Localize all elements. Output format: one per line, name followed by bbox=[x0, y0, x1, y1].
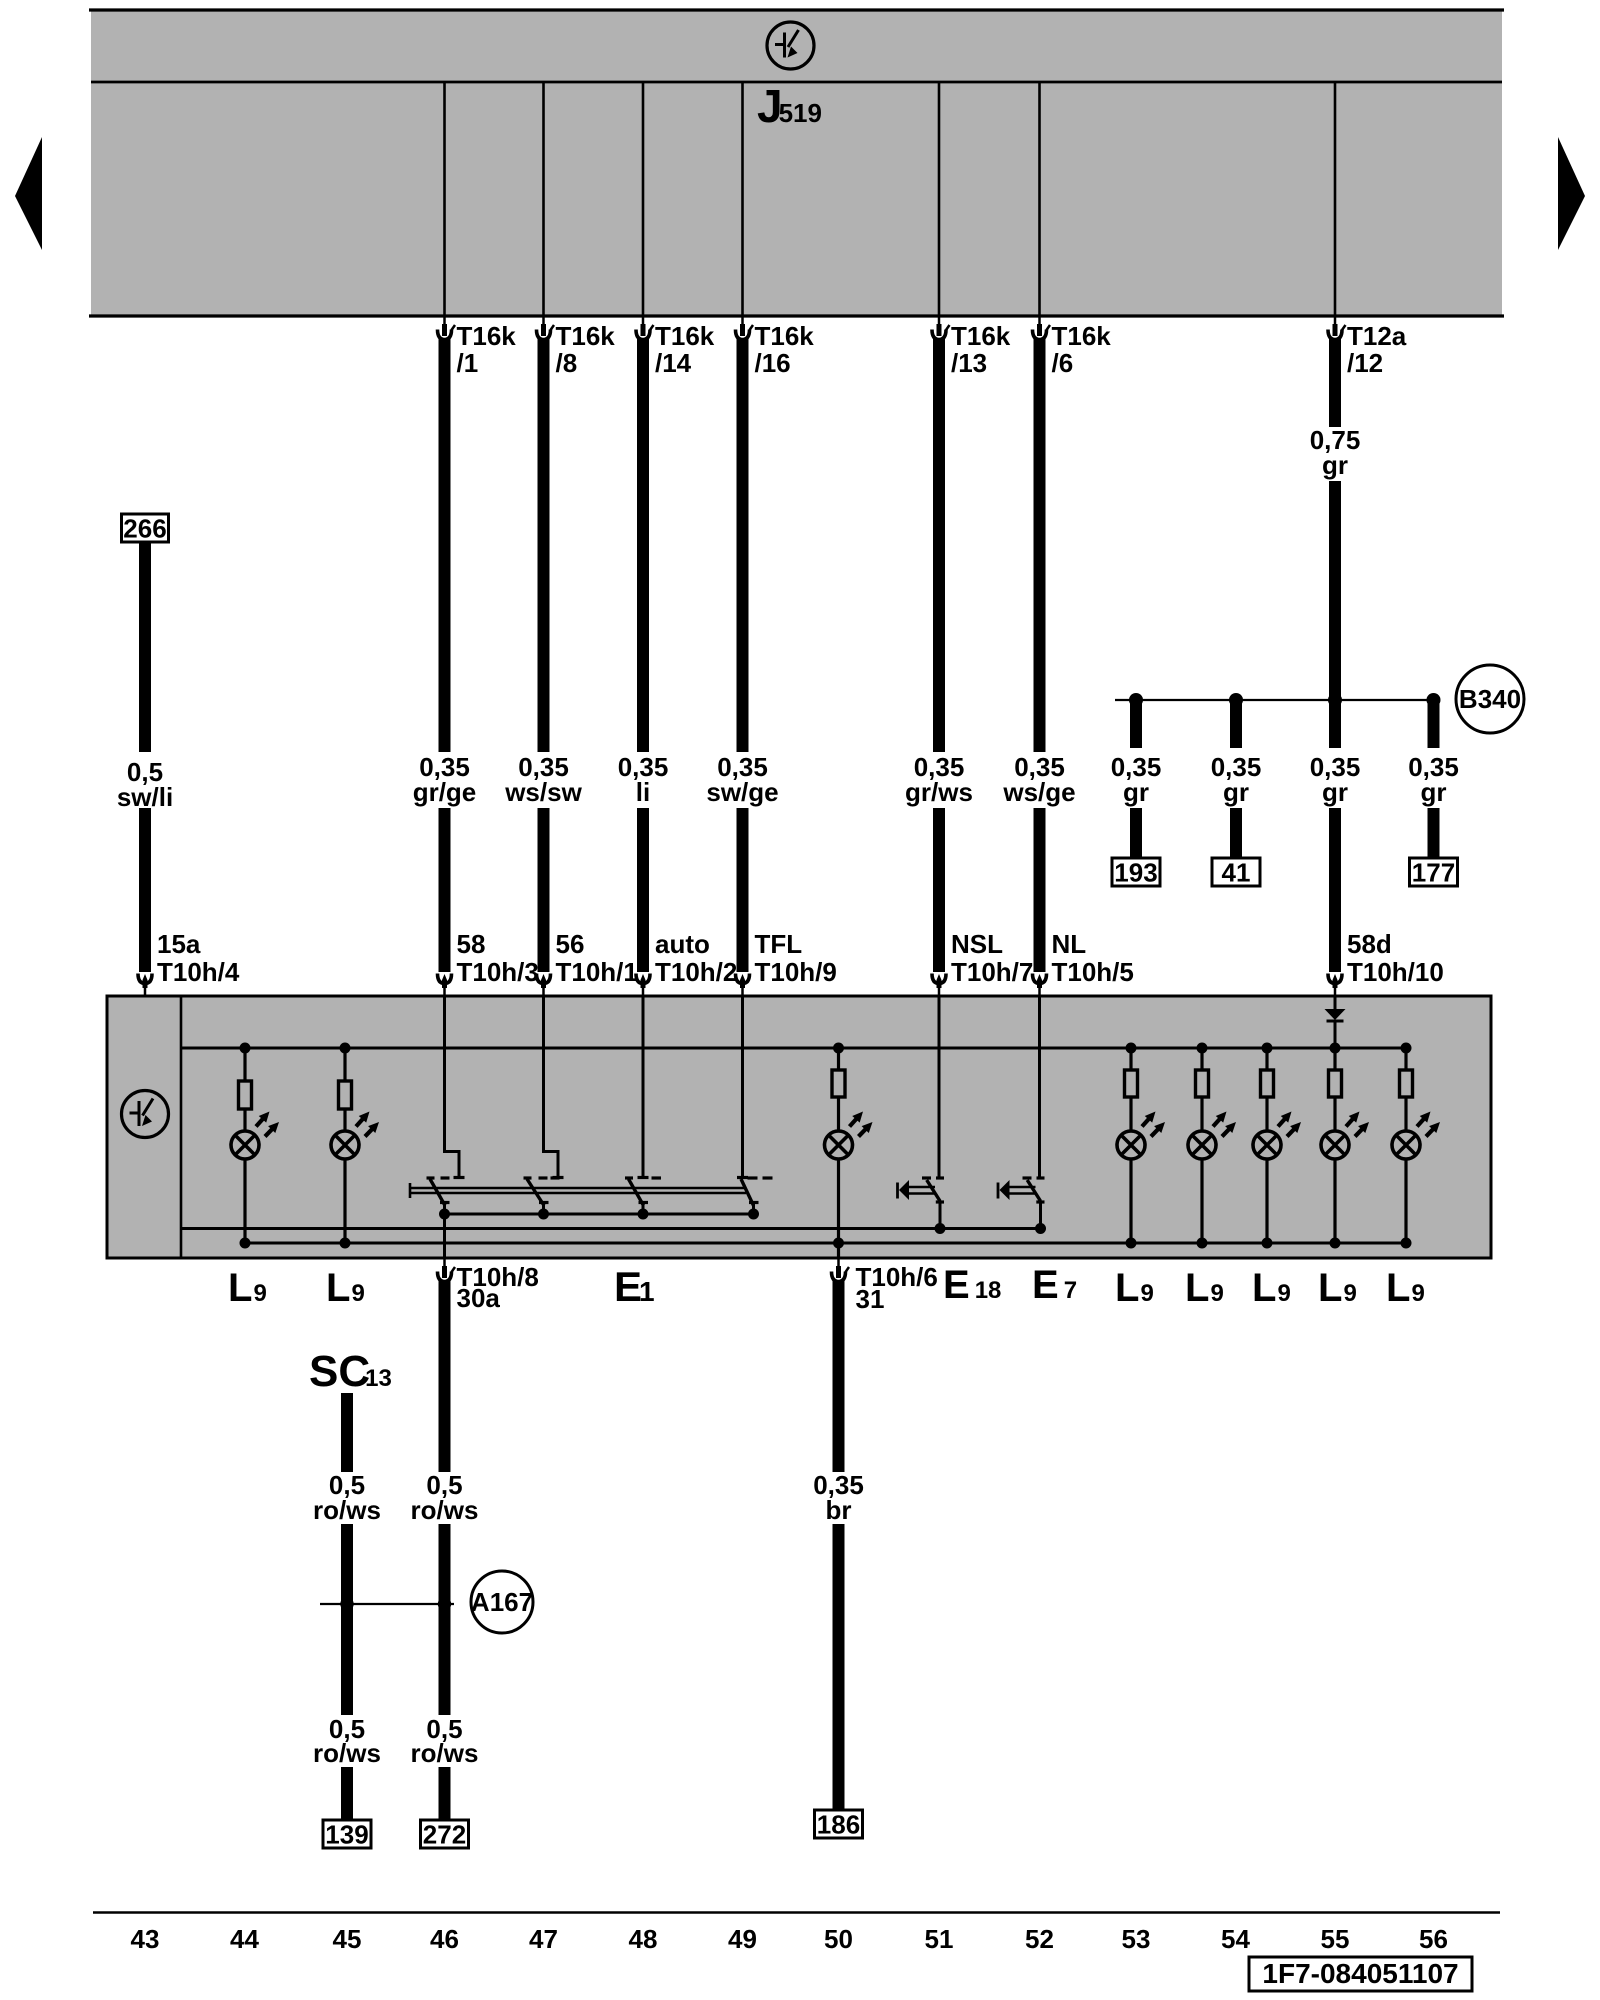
svg-text:gr: gr bbox=[1421, 777, 1447, 807]
pin label T16k/1 bbox=[457, 321, 517, 378]
svg-text:T16k: T16k bbox=[655, 321, 715, 351]
E1 feed wire col 48 bbox=[638, 996, 649, 1178]
svg-text:L9: L9 bbox=[1252, 1266, 1291, 1310]
connector T10h/6 below box bbox=[832, 1258, 850, 1282]
wire segment column 49 lower bbox=[737, 808, 749, 972]
svg-text:TFL: TFL bbox=[755, 929, 803, 959]
wire T12a/12 segment 3 bbox=[1329, 808, 1341, 972]
svg-text:T16k: T16k bbox=[755, 321, 815, 351]
label L9 fourth bbox=[1185, 1266, 1224, 1310]
wire T12a/12 segment 2 bbox=[1329, 481, 1341, 748]
terminal label NL T10h/5 bbox=[1052, 929, 1134, 987]
reference box 266 bbox=[122, 513, 169, 543]
reference box 139 bbox=[323, 1819, 371, 1849]
svg-text:T10h/3: T10h/3 bbox=[457, 957, 539, 987]
svg-text:54: 54 bbox=[1221, 1924, 1250, 1954]
wire resistor to lamp L9#6 bbox=[1333, 1097, 1336, 1131]
svg-text:43: 43 bbox=[131, 1924, 160, 1954]
current track number 48 bbox=[629, 1924, 658, 1954]
resistor lamp L9#7 bbox=[1400, 1070, 1413, 1097]
svg-text:sw/li: sw/li bbox=[117, 782, 173, 812]
connector into light switch column 47 bbox=[537, 974, 551, 997]
terminal label NSL T10h/7 bbox=[951, 929, 1033, 987]
svg-text:48: 48 bbox=[629, 1924, 658, 1954]
wire from B340 to 177 lower bbox=[1428, 808, 1440, 858]
junction on B340 at col 56 bbox=[1427, 693, 1441, 707]
junction lamp L9#7 bottom bbox=[1401, 1238, 1412, 1249]
wire lamp L9#1 to return bus bbox=[243, 1159, 246, 1243]
diagram number box bbox=[1249, 1957, 1472, 1991]
svg-text:44: 44 bbox=[230, 1924, 259, 1954]
svg-text:193: 193 bbox=[1114, 857, 1157, 887]
label SC13 bbox=[309, 1347, 392, 1396]
svg-text:T10h/2: T10h/2 bbox=[655, 957, 737, 987]
resistor lamp L9#5 bbox=[1261, 1070, 1274, 1097]
wire resistor to lamp L9#5 bbox=[1265, 1097, 1268, 1131]
wire size/colour label 0,35 gr/ws bbox=[905, 752, 973, 807]
junction A167 on SC13 wire bbox=[340, 1597, 353, 1610]
svg-text:272: 272 bbox=[423, 1819, 466, 1849]
label E1 bbox=[614, 1263, 655, 1310]
svg-text:55: 55 bbox=[1321, 1924, 1350, 1954]
junction lamp L9#4 bottom bbox=[1197, 1238, 1208, 1249]
svg-text:NL: NL bbox=[1052, 929, 1087, 959]
middle lamp feed wire bbox=[837, 1048, 840, 1070]
label J519 bbox=[757, 80, 822, 132]
wire size/colour label 0,5 ro/ws (SC13 lower) bbox=[313, 1714, 381, 1768]
svg-text:58: 58 bbox=[457, 929, 486, 959]
lamp L9#2 bbox=[331, 1112, 379, 1160]
svg-text:NSL: NSL bbox=[951, 929, 1003, 959]
junction middle lamp top bbox=[833, 1043, 844, 1054]
reference box 41 bbox=[1212, 857, 1260, 887]
wire segment column 48 lower bbox=[637, 808, 649, 972]
svg-text:139: 139 bbox=[325, 1819, 368, 1849]
svg-text:E18: E18 bbox=[943, 1263, 1001, 1307]
svg-text:A167: A167 bbox=[471, 1587, 533, 1617]
svg-text:B340: B340 bbox=[1459, 684, 1521, 714]
label L9 first bbox=[228, 1266, 267, 1310]
svg-text:49: 49 bbox=[728, 1924, 757, 1954]
wire size/colour label 0,35 li bbox=[618, 752, 669, 807]
junction lamp L9#6 top bbox=[1330, 1043, 1341, 1054]
resistor lamp L9#3 bbox=[1125, 1070, 1138, 1097]
junction middle lamp bottom bbox=[833, 1238, 844, 1249]
reference box 193 bbox=[1112, 857, 1160, 887]
terminal label 56 T10h/1 bbox=[556, 929, 638, 987]
svg-text:br: br bbox=[826, 1495, 852, 1525]
current track number 46 bbox=[430, 1924, 459, 1954]
reference box 177 bbox=[1410, 857, 1458, 887]
svg-text:/8: /8 bbox=[556, 348, 578, 378]
reference box 272 bbox=[421, 1819, 469, 1849]
wire segment column 51 lower bbox=[933, 808, 945, 972]
svg-text:/12: /12 bbox=[1347, 348, 1383, 378]
svg-text:gr: gr bbox=[1322, 777, 1348, 807]
internal supply bus bbox=[181, 1047, 1406, 1050]
svg-text:gr: gr bbox=[1223, 777, 1249, 807]
connector into light switch column 52 bbox=[1033, 974, 1047, 997]
connector T16k/6 at J519 bbox=[1033, 316, 1051, 340]
lamp L9#7 feed wire bbox=[1404, 1048, 1407, 1070]
svg-text:L9: L9 bbox=[1185, 1266, 1224, 1310]
wire lamp L9#5 to return bus bbox=[1265, 1159, 1268, 1243]
svg-text:ro/ws: ro/ws bbox=[411, 1495, 479, 1525]
svg-text:56: 56 bbox=[1419, 1924, 1448, 1954]
internal lamp return bus bbox=[245, 1242, 1406, 1245]
connector T16k/16 at J519 bbox=[736, 316, 754, 340]
E1 switch contact position 2 bbox=[524, 1178, 560, 1220]
wire from B340 to 193 lower bbox=[1130, 808, 1142, 858]
junction lamp L9#1 top bbox=[240, 1043, 251, 1054]
svg-text:47: 47 bbox=[529, 1924, 558, 1954]
current track number 54 bbox=[1221, 1924, 1250, 1954]
label L9 third bbox=[1115, 1266, 1154, 1310]
label T10h/8 30a bbox=[457, 1262, 539, 1313]
svg-text:/6: /6 bbox=[1052, 348, 1074, 378]
svg-text:E7: E7 bbox=[1032, 1263, 1077, 1307]
label L9 fifth bbox=[1252, 1266, 1291, 1310]
internal switch return bus bbox=[181, 1227, 1041, 1230]
lamp L9#5 feed wire bbox=[1265, 1048, 1268, 1070]
label L9 second bbox=[326, 1266, 365, 1310]
svg-text:sw/ge: sw/ge bbox=[706, 777, 778, 807]
wire 266 upper segment bbox=[139, 542, 151, 752]
connection B340 bus wire bbox=[1115, 699, 1438, 701]
svg-text:L9: L9 bbox=[1318, 1266, 1357, 1310]
lamp L9#1 feed wire bbox=[243, 1048, 246, 1081]
control unit box J519 bbox=[89, 9, 1504, 316]
wire resistor to lamp L9#1 bbox=[243, 1109, 246, 1131]
direction arrow right bbox=[1558, 137, 1585, 250]
wire from B340 to 41 lower bbox=[1230, 808, 1242, 858]
svg-text:56: 56 bbox=[556, 929, 585, 959]
connector into light switch column 51 bbox=[932, 974, 946, 997]
E1 actuator bar bbox=[410, 1183, 746, 1198]
pin label T16k/6 bbox=[1052, 321, 1112, 378]
lamp L9#1 bbox=[231, 1112, 279, 1160]
svg-text:45: 45 bbox=[333, 1924, 362, 1954]
junction lamp L9#5 top bbox=[1262, 1043, 1273, 1054]
wire size/colour label 0,5 sw/li bbox=[117, 757, 173, 812]
svg-text:gr/ws: gr/ws bbox=[905, 777, 973, 807]
wire T12a/12 segment 1 bbox=[1329, 339, 1341, 427]
svg-text:ro/ws: ro/ws bbox=[411, 1738, 479, 1768]
svg-text:gr: gr bbox=[1123, 777, 1149, 807]
svg-text:31: 31 bbox=[856, 1284, 885, 1314]
pin label T16k/13 bbox=[951, 321, 1011, 378]
label T10h/6 31 bbox=[856, 1262, 938, 1314]
wire lamp L9#3 to return bus bbox=[1129, 1159, 1132, 1243]
wire resistor to lamp L9#2 bbox=[343, 1109, 346, 1131]
junction on B340 at col 55 bbox=[1328, 693, 1342, 707]
junction lamp L9#2 bottom bbox=[340, 1238, 351, 1249]
current track number 49 bbox=[728, 1924, 757, 1954]
svg-text:15a: 15a bbox=[157, 929, 201, 959]
wire 30a segment 3 bbox=[439, 1767, 451, 1820]
wire size/colour label 0,75 gr bbox=[1310, 425, 1361, 480]
svg-text:E1: E1 bbox=[614, 1263, 655, 1310]
terminal label 58d T10h/10 bbox=[1347, 929, 1444, 987]
wire size/colour label 0,35 ws/sw bbox=[504, 752, 582, 807]
wire 266 lower segment bbox=[139, 808, 151, 972]
svg-text:/14: /14 bbox=[655, 348, 692, 378]
label L9 sixth bbox=[1318, 1266, 1357, 1310]
connection A167 wire bbox=[320, 1603, 454, 1605]
wire stub in J519 column 49 bbox=[741, 82, 744, 316]
wire resistor to lamp L9#3 bbox=[1129, 1097, 1132, 1131]
resistor lamp L9#4 bbox=[1196, 1070, 1209, 1097]
lamp L9#3 feed wire bbox=[1129, 1048, 1132, 1070]
svg-text:L9: L9 bbox=[326, 1266, 365, 1310]
current track number 55 bbox=[1321, 1924, 1350, 1954]
E1 output wire 30a bbox=[443, 1214, 446, 1258]
E1 switch contact position 3 bbox=[625, 1178, 661, 1220]
middle lamp bbox=[825, 1112, 873, 1160]
svg-text:T10h/1: T10h/1 bbox=[556, 957, 638, 987]
wire stub in J519 column 47 bbox=[542, 82, 545, 316]
K symbol in light switch bbox=[122, 1091, 169, 1138]
svg-text:L9: L9 bbox=[1115, 1266, 1154, 1310]
wire resistor to middle lamp bbox=[837, 1097, 840, 1131]
reference box 186 bbox=[815, 1809, 863, 1839]
wire stub in J519 column 51 bbox=[938, 82, 941, 316]
lamp L9#5 bbox=[1253, 1112, 1301, 1160]
svg-text:46: 46 bbox=[430, 1924, 459, 1954]
wire size/colour label 0,5 ro/ws (30a lower) bbox=[411, 1714, 479, 1768]
wire segment column 48 upper bbox=[637, 339, 649, 752]
current track number 52 bbox=[1025, 1924, 1054, 1954]
fuse wire SC13 segment 2 bbox=[341, 1524, 353, 1715]
wire size/colour label 0,35 gr (col 53) bbox=[1111, 752, 1162, 807]
junction A167 on 30a wire bbox=[438, 1597, 451, 1610]
connector 15a into light switch bbox=[138, 974, 152, 997]
svg-text:30a: 30a bbox=[457, 1283, 501, 1313]
wire 31 segment 1 bbox=[833, 1281, 845, 1472]
terminal label 15a T10h/4 bbox=[157, 929, 240, 987]
connector into light switch column 49 bbox=[736, 974, 750, 997]
svg-text:T16k: T16k bbox=[1052, 321, 1112, 351]
wire stub in J519 column 46 bbox=[443, 82, 446, 316]
wire size/colour label 0,35 gr (col 56) bbox=[1408, 752, 1459, 807]
svg-text:50: 50 bbox=[824, 1924, 853, 1954]
svg-text:T16k: T16k bbox=[457, 321, 517, 351]
svg-text:SC13: SC13 bbox=[309, 1347, 392, 1396]
light switch internal divider bbox=[180, 996, 183, 1258]
svg-text:1F7-084051107: 1F7-084051107 bbox=[1262, 1958, 1458, 1989]
lamp L9#4 bbox=[1188, 1112, 1236, 1160]
pin label T16k/8 bbox=[556, 321, 616, 378]
lamp L9#6 feed wire bbox=[1333, 1048, 1336, 1070]
connector 58d into light switch bbox=[1328, 974, 1342, 997]
connector T16k/8 at J519 bbox=[537, 316, 555, 340]
terminal label 58 T10h/3 bbox=[457, 929, 539, 987]
label L9 seventh bbox=[1386, 1266, 1425, 1310]
junction lamp L9#3 bottom bbox=[1126, 1238, 1137, 1249]
wire lamp L9#2 to return bus bbox=[343, 1159, 346, 1243]
svg-text:gr/ge: gr/ge bbox=[413, 777, 477, 807]
wire segment column 46 lower bbox=[439, 808, 451, 972]
wire size/colour label 0,35 gr/ge bbox=[413, 752, 477, 807]
svg-text:gr: gr bbox=[1322, 450, 1348, 480]
svg-text:T10h/9: T10h/9 bbox=[755, 957, 837, 987]
svg-text:T12a: T12a bbox=[1347, 321, 1407, 351]
pin label T12a/12 bbox=[1347, 321, 1407, 378]
wire segment column 46 upper bbox=[439, 339, 451, 752]
switch E7 bbox=[998, 996, 1046, 1234]
wire size/colour label 0,35 sw/ge bbox=[706, 752, 778, 807]
wire size/colour label 0,35 br bbox=[813, 1470, 864, 1525]
svg-text:53: 53 bbox=[1122, 1924, 1151, 1954]
lamp L9#2 feed wire bbox=[343, 1048, 346, 1081]
light switch module box bbox=[107, 996, 1491, 1258]
wire 31 segment 2 bbox=[833, 1524, 845, 1810]
pin label T16k/16 bbox=[755, 321, 815, 378]
junction lamp L9#5 bottom bbox=[1262, 1238, 1273, 1249]
connector T10h/8 below box bbox=[438, 1258, 456, 1282]
current track number 47 bbox=[529, 1924, 558, 1954]
wire segment column 49 upper bbox=[737, 339, 749, 752]
wire 30a segment 2 bbox=[439, 1524, 451, 1715]
lamp L9#4 feed wire bbox=[1200, 1048, 1203, 1070]
E1 switch contact position 4 bbox=[741, 1178, 773, 1220]
lamp L9#7 bbox=[1392, 1112, 1440, 1160]
wire lamp L9#7 to return bus bbox=[1404, 1159, 1407, 1243]
svg-text:auto: auto bbox=[655, 929, 710, 959]
current track number 51 bbox=[925, 1924, 954, 1954]
junction lamp L9#4 top bbox=[1197, 1043, 1208, 1054]
wire segment column 52 upper bbox=[1034, 339, 1046, 752]
connector T16k/13 at J519 bbox=[932, 316, 950, 340]
junction lamp L9#2 top bbox=[340, 1043, 351, 1054]
svg-text:41: 41 bbox=[1222, 857, 1251, 887]
svg-text:L9: L9 bbox=[1386, 1266, 1425, 1310]
current track number 43 bbox=[131, 1924, 160, 1954]
wire segment column 47 lower bbox=[538, 808, 550, 972]
current track number 50 bbox=[824, 1924, 853, 1954]
svg-text:ro/ws: ro/ws bbox=[313, 1495, 381, 1525]
current track number 45 bbox=[333, 1924, 362, 1954]
wire resistor to lamp L9#4 bbox=[1200, 1097, 1203, 1131]
svg-text:58d: 58d bbox=[1347, 929, 1392, 959]
svg-text:ro/ws: ro/ws bbox=[313, 1738, 381, 1768]
wire from B340 to 193 upper bbox=[1130, 703, 1142, 748]
wire middle lamp to return bus bbox=[837, 1159, 840, 1258]
svg-text:T16k: T16k bbox=[556, 321, 616, 351]
connection designation A167 bbox=[471, 1571, 533, 1633]
diode (58d feed) bbox=[1325, 1009, 1346, 1021]
svg-text:51: 51 bbox=[925, 1924, 954, 1954]
svg-text:186: 186 bbox=[817, 1809, 860, 1839]
pin label T16k/14 bbox=[655, 321, 715, 378]
svg-text:T10h/10: T10h/10 bbox=[1347, 957, 1444, 987]
connector into light switch column 48 bbox=[636, 974, 650, 997]
svg-text:T10h/7: T10h/7 bbox=[951, 957, 1033, 987]
wire from B340 to 177 upper bbox=[1428, 703, 1440, 748]
wire size/colour label 0,5 ro/ws (30a) bbox=[411, 1470, 479, 1525]
current track number 44 bbox=[230, 1924, 259, 1954]
resistor lamp L9#2 bbox=[339, 1081, 352, 1109]
wire lamp L9#6 to return bus bbox=[1333, 1159, 1336, 1243]
direction arrow left bbox=[15, 137, 42, 250]
E1 switch contact position 1 bbox=[427, 1178, 451, 1220]
current track number 56 bbox=[1419, 1924, 1448, 1954]
svg-text:li: li bbox=[636, 777, 650, 807]
current track number 53 bbox=[1122, 1924, 1151, 1954]
lamp L9#3 bbox=[1117, 1112, 1165, 1160]
wire stub in J519 column 48 bbox=[642, 82, 645, 316]
wire into diode bbox=[1334, 996, 1337, 1010]
wire from B340 to 41 upper bbox=[1230, 703, 1242, 748]
svg-text:52: 52 bbox=[1025, 1924, 1054, 1954]
junction lamp L9#3 top bbox=[1126, 1043, 1137, 1054]
svg-text:T16k: T16k bbox=[951, 321, 1011, 351]
label E18 bbox=[943, 1263, 1001, 1307]
svg-text:266: 266 bbox=[123, 513, 166, 543]
current track scale line bbox=[93, 1911, 1500, 1914]
connector T16k/14 at J519 bbox=[636, 316, 654, 340]
wire resistor to lamp L9#7 bbox=[1404, 1097, 1407, 1131]
svg-text:L9: L9 bbox=[228, 1266, 267, 1310]
svg-text:T10h/4: T10h/4 bbox=[157, 957, 240, 987]
fuse wire SC13 segment 1 bbox=[341, 1393, 353, 1472]
svg-text:T10h/5: T10h/5 bbox=[1052, 957, 1134, 987]
svg-text:/1: /1 bbox=[457, 348, 479, 378]
resistor middle lamp bbox=[832, 1070, 845, 1097]
resistor lamp L9#6 bbox=[1329, 1070, 1342, 1097]
wire segment column 47 upper bbox=[538, 339, 550, 752]
junction on B340 at col 53 bbox=[1129, 693, 1143, 707]
wire size/colour label 0,35 gr (col 55) bbox=[1310, 752, 1361, 807]
wire stub in J519 column 52 bbox=[1038, 82, 1041, 316]
wire stub in J519 column 55 bbox=[1334, 82, 1337, 316]
E1 feed wire col 49 bbox=[737, 996, 748, 1178]
switch E18 bbox=[898, 996, 946, 1234]
connector T16k/1 at J519 bbox=[438, 316, 456, 340]
svg-text:/13: /13 bbox=[951, 348, 987, 378]
wire size/colour label 0,5 ro/ws (SC13) bbox=[313, 1470, 381, 1525]
E1 feed wire col 47 bbox=[544, 996, 564, 1178]
wire 30a segment 1 bbox=[439, 1281, 451, 1472]
resistor lamp L9#1 bbox=[239, 1081, 252, 1109]
svg-text:ws/ge: ws/ge bbox=[1002, 777, 1075, 807]
lamp L9#6 bbox=[1321, 1112, 1369, 1160]
connection designation B340 bbox=[1456, 665, 1524, 733]
label E7 bbox=[1032, 1263, 1077, 1307]
svg-text:/16: /16 bbox=[755, 348, 791, 378]
wire lamp L9#4 to return bus bbox=[1200, 1159, 1203, 1243]
connector T12a/12 at J519 bbox=[1328, 316, 1346, 340]
svg-text:177: 177 bbox=[1412, 857, 1455, 887]
K symbol in J519 bbox=[767, 22, 814, 69]
junction lamp L9#1 bottom bbox=[240, 1238, 251, 1249]
connector into light switch column 46 bbox=[438, 974, 452, 997]
junction on B340 at col 54 bbox=[1229, 693, 1243, 707]
junction lamp L9#6 bottom bbox=[1330, 1238, 1341, 1249]
terminal label TFL T10h/9 bbox=[755, 929, 837, 987]
wire segment column 52 lower bbox=[1034, 808, 1046, 972]
terminal label auto T10h/2 bbox=[655, 929, 737, 987]
wire size/colour label 0,35 gr (col 54) bbox=[1211, 752, 1262, 807]
wire size/colour label 0,35 ws/ge bbox=[1002, 752, 1075, 807]
wire diode to bus bbox=[1334, 1021, 1337, 1048]
junction lamp L9#7 top bbox=[1401, 1043, 1412, 1054]
wire segment column 51 upper bbox=[933, 339, 945, 752]
fuse wire SC13 segment 3 bbox=[341, 1767, 353, 1820]
svg-text:ws/sw: ws/sw bbox=[504, 777, 582, 807]
E1 feed wire col 46 bbox=[445, 996, 465, 1178]
E1 wiper bus bbox=[445, 1213, 754, 1216]
